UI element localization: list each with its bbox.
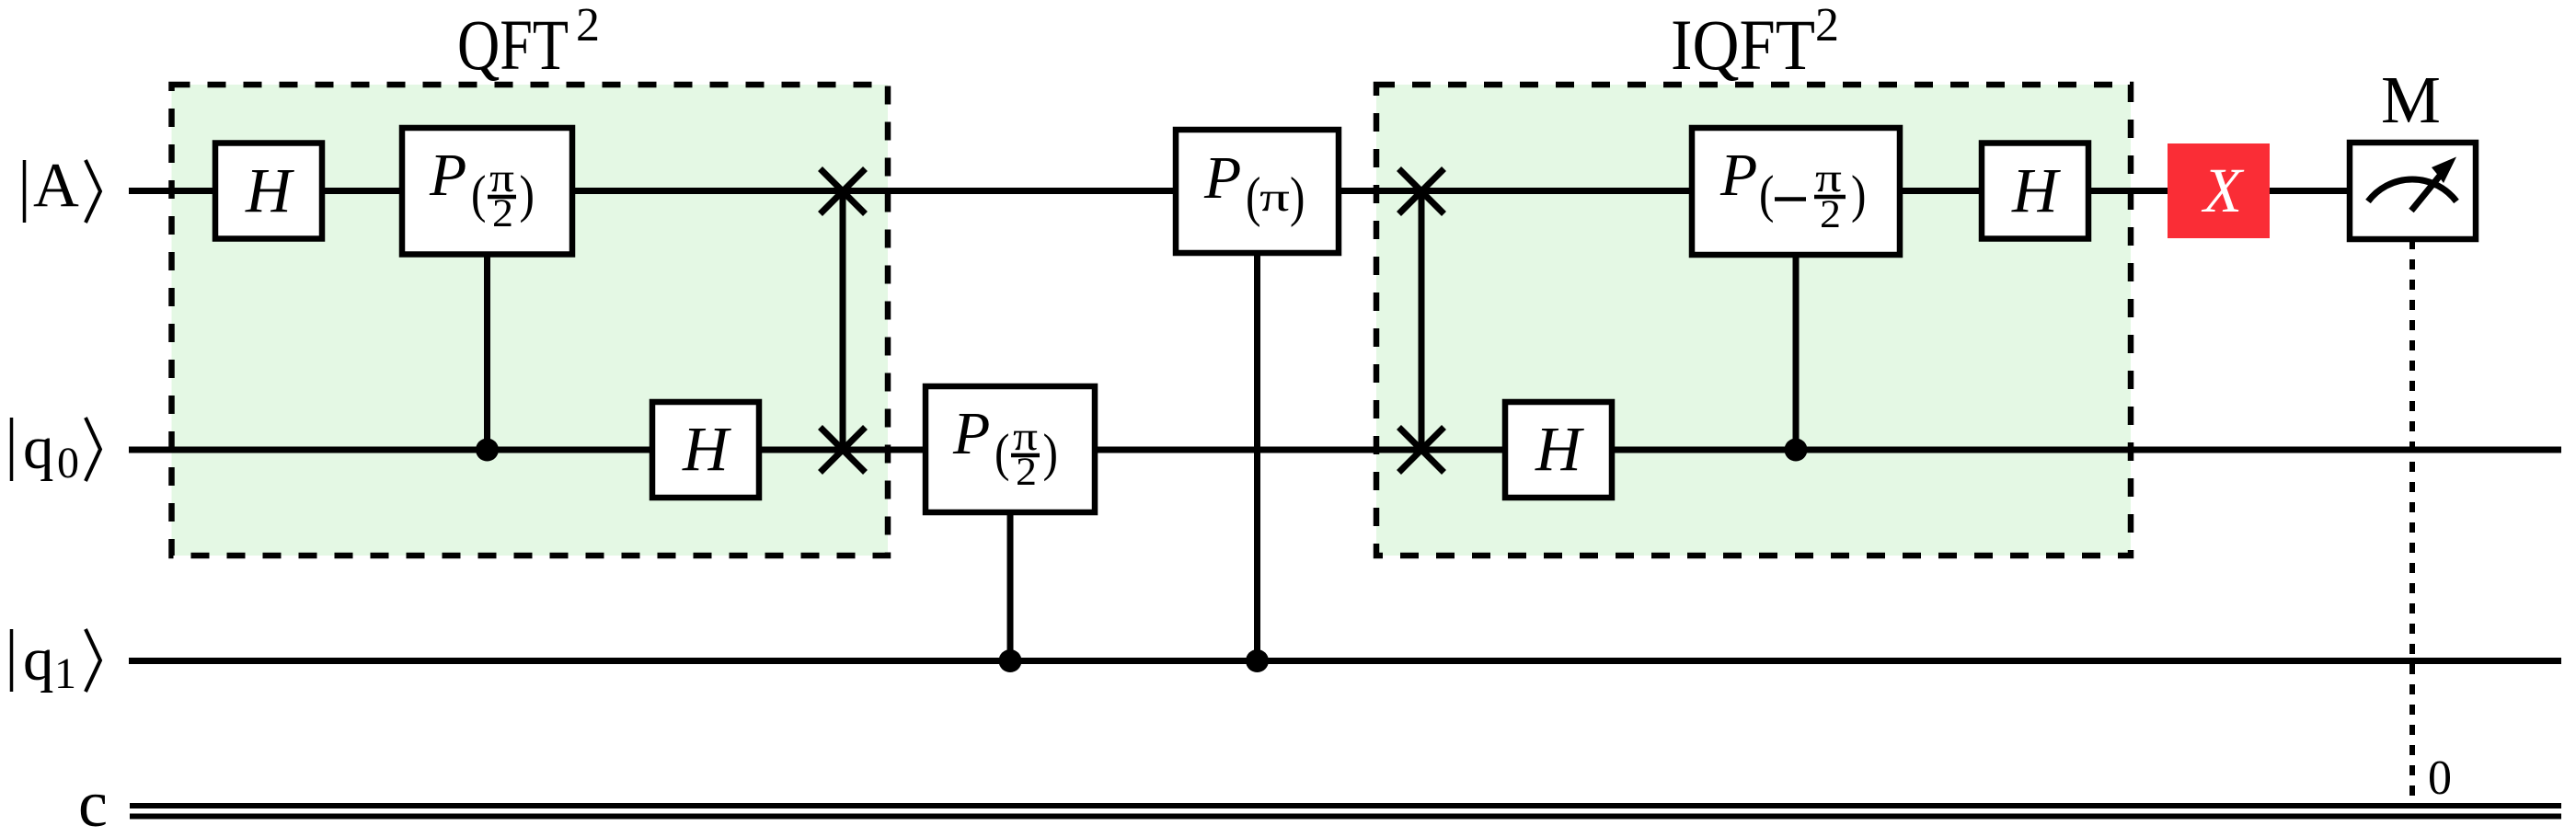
swap gate 1 cross on q0 <box>821 428 866 473</box>
svg-text:2: 2 <box>1815 0 1839 52</box>
swap gate 1 cross on A <box>821 169 866 214</box>
IQFT2 block dashed green box <box>1376 85 2131 556</box>
svg-text:H: H <box>1535 414 1584 484</box>
svg-text:0: 0 <box>2428 751 2452 805</box>
svg-text:c: c <box>78 767 108 837</box>
svg-text:2: 2 <box>492 192 513 235</box>
svg-text:(: ( <box>995 425 1009 482</box>
QFT2 block label <box>457 0 600 85</box>
gate P(-pi/2) on A <box>1692 128 1900 255</box>
svg-text:H: H <box>2011 155 2061 225</box>
IQFT2 block label <box>1671 0 1839 85</box>
control dot on q1 for P(pi) <box>1246 649 1269 672</box>
wire q1 <box>129 658 2561 664</box>
svg-text:(: ( <box>1246 166 1260 227</box>
svg-text:2: 2 <box>576 0 600 52</box>
svg-text:): ) <box>1851 166 1866 224</box>
control line from P(pi) on A to q1 <box>1254 248 1260 661</box>
svg-text:2: 2 <box>1016 451 1037 494</box>
svg-text:X: X <box>2201 155 2245 225</box>
gate P(pi) on A <box>1176 130 1339 253</box>
svg-text:0: 0 <box>57 439 79 487</box>
swap gate 2 cross on A <box>1399 169 1444 214</box>
svg-text:A: A <box>33 150 79 220</box>
label |q1> <box>12 625 101 698</box>
svg-text:H: H <box>245 155 294 225</box>
svg-text:P: P <box>429 142 466 209</box>
svg-text:): ) <box>1043 425 1058 482</box>
svg-text:(: ( <box>471 166 486 224</box>
gate P(pi/2) on q0 <box>926 386 1095 512</box>
label |q0> <box>12 414 101 487</box>
gate X (red) on A <box>2168 143 2270 238</box>
measurement classical dotted line <box>2409 239 2415 803</box>
svg-text:QFT: QFT <box>457 5 569 85</box>
svg-text:π: π <box>1259 175 1290 220</box>
measurement meter arc <box>2368 179 2456 201</box>
measurement meter needle arrowhead <box>2432 157 2456 184</box>
svg-text:(: ( <box>1759 166 1774 224</box>
gate H4 on q0 <box>1505 402 1612 498</box>
control dot on q0 for P(-pi/2) <box>1785 439 1808 462</box>
svg-text:M: M <box>2381 63 2441 137</box>
QFT2 block dashed green box <box>172 85 889 556</box>
svg-text:P: P <box>952 400 990 467</box>
svg-text:): ) <box>520 166 535 224</box>
control line from P(pi/2) on A to q0 <box>484 248 490 450</box>
control line from P(pi/2) on q0 to q1 <box>1007 506 1014 661</box>
swap gate 1 connector <box>840 191 846 450</box>
swap gate 2 cross on q0 <box>1399 428 1444 473</box>
measurement gate M box <box>2350 143 2476 239</box>
svg-text:IQFT: IQFT <box>1671 5 1815 85</box>
wire q0 <box>129 447 2561 453</box>
control dot on q0 for P(pi/2) <box>476 439 499 462</box>
gate H2 on A <box>1982 143 2088 239</box>
measurement meter needle <box>2411 176 2440 211</box>
classical wire c (double line) <box>130 806 2561 817</box>
label |A> <box>25 150 101 223</box>
svg-text:2: 2 <box>1820 193 1841 236</box>
svg-text:): ) <box>1290 166 1305 227</box>
swap gate 2 connector <box>1419 191 1425 450</box>
gate H3 on q0 <box>652 402 759 498</box>
svg-text:q: q <box>23 625 54 694</box>
wire A <box>129 188 2352 194</box>
control line from P(-pi/2) on A to q0 <box>1793 248 1800 450</box>
gate H1 on A <box>215 143 322 239</box>
gate P(pi/2) on A <box>402 128 572 255</box>
control dot on q1 for P(pi/2) q0 <box>999 649 1022 672</box>
svg-text:P: P <box>1719 142 1757 209</box>
svg-text:P: P <box>1203 144 1241 212</box>
svg-text:q: q <box>23 414 54 482</box>
svg-text:H: H <box>682 414 731 484</box>
svg-text:1: 1 <box>54 649 76 698</box>
